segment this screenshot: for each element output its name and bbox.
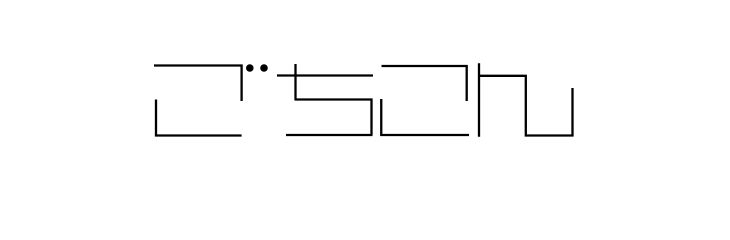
glyph KO bottom L stroke (381, 99, 469, 135)
glyph CHI middle shelf stroke (295, 100, 372, 136)
glyph N left vertical stroke (478, 63, 480, 137)
glyph GO top bar with right hook (154, 66, 242, 102)
glyph CHI vertical cross stroke (294, 64, 296, 100)
dakuten dot 1 (246, 64, 254, 72)
glyph CHI top horizontal stroke (277, 74, 373, 76)
dakuten dot 2 (260, 64, 268, 72)
glyph KO top bar with right hook (382, 66, 467, 101)
glyph CHI bottom horizontal stroke (286, 134, 373, 136)
glyph GO bottom L stroke (156, 100, 242, 136)
glyph N hump stroke (478, 76, 573, 136)
